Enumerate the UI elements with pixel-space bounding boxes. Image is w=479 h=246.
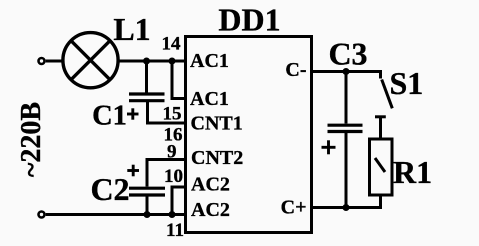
svg-text:AC2: AC2 [191,199,230,221]
node: junction dot C3 bottom [343,204,350,211]
node: junction dot C2/bottom wire [144,211,151,218]
svg-text:14: 14 [162,34,182,55]
svg-text:10: 10 [164,166,183,187]
svg-text:C2: C2 [90,171,129,207]
node: junction dot pin10/bottom wire [169,211,176,218]
node: junction dot C3 top [343,68,350,75]
svg-text:AC1: AC1 [190,88,229,110]
polarity + of C3 [322,140,336,154]
wire top: lamp to IC pin 14 [118,60,184,63]
wire: C+ net [313,195,381,208]
svg-text:~220B: ~220B [16,102,47,177]
node: junction dot pin15/top wire [169,58,176,65]
svg-text:C3: C3 [328,35,367,71]
svg-text:15: 15 [163,104,182,125]
IC DD1 body [186,37,312,233]
capacitor C2 [129,160,184,215]
polarity + of C2 [127,165,139,177]
node: junction dot C1/top wire [143,58,150,65]
svg-text:11: 11 [166,220,184,241]
wire top: terminal to lamp [46,60,64,63]
wire bottom [46,213,184,216]
terminal bottom-left [39,212,45,218]
wire: pin 15 link [172,61,184,99]
switch S1 [375,72,392,140]
svg-text:L1: L1 [113,11,150,47]
svg-text:S1: S1 [390,65,424,101]
lamp L1 [63,33,118,88]
svg-text:DD1: DD1 [218,2,280,38]
resistor R1 [370,139,393,195]
svg-text:C-: C- [285,59,306,81]
svg-text:9: 9 [167,142,177,163]
svg-text:CNT2: CNT2 [191,147,243,169]
svg-text:C1: C1 [92,101,127,132]
svg-text:CNT1: CNT1 [191,112,243,134]
svg-text:C+: C+ [281,197,307,219]
wire: C- net [313,70,382,73]
svg-text:R1: R1 [393,154,432,190]
capacitor C3 [328,72,363,208]
svg-text:AC1: AC1 [190,50,229,72]
polarity + of C1 [127,108,139,119]
capacitor C1 [129,61,184,123]
wire: pin 10 link [172,187,184,215]
svg-text:AC2: AC2 [191,174,230,196]
terminal top-left [39,58,45,64]
